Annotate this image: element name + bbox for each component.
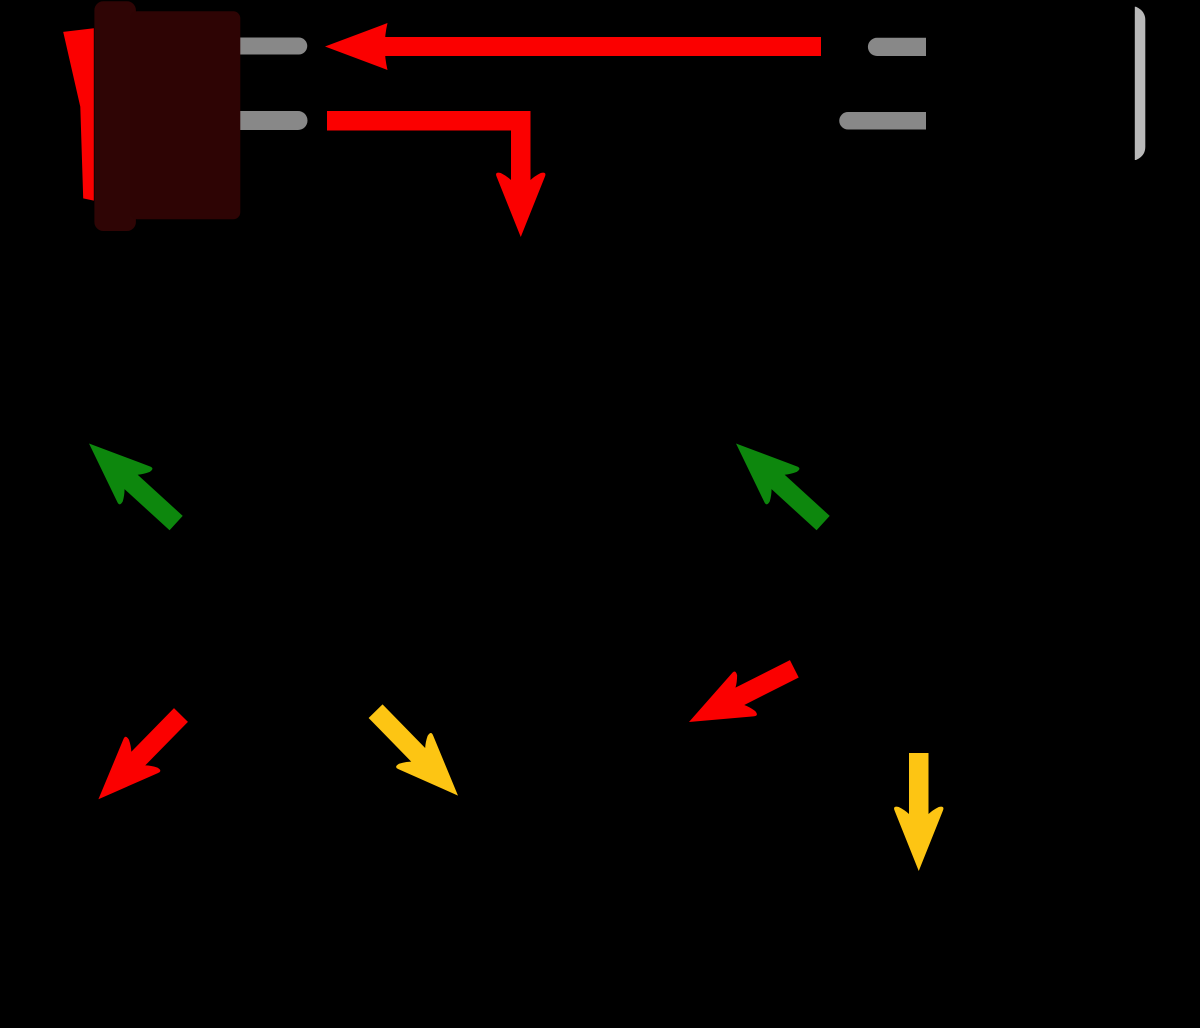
callout arrow yellow Y1 (down-right, bottom-middle) <box>358 694 476 813</box>
callout arrow green G2 (up-left, right area) <box>719 425 839 541</box>
wire arrow W1: shaft (red, horizontal, to pin1) <box>384 37 821 56</box>
pin 3 of S2 (floating, left-rounded) <box>868 38 926 56</box>
callout arrow green G1 (up-left, lower-left area) <box>72 425 192 541</box>
wire arrow W2: elbow wire (red, horizontal from pin2 then down) <box>327 111 531 131</box>
rocker switch S1 body <box>130 11 240 219</box>
rocker switch S2 lever highlight (gray bar, far right) <box>1135 7 1146 160</box>
pin 1 of S1 <box>239 38 307 55</box>
pin 4 of S2 (floating, left-rounded) <box>839 112 926 130</box>
rocker switch S1 flange <box>94 1 135 231</box>
wire arrow W1: head (left-pointing triangle) <box>325 23 388 70</box>
wire arrow W2: fancy down head at (520.75,237) <box>496 119 545 237</box>
pin 2 of S1 <box>239 111 308 130</box>
callout arrow red R3 (down-left shallow, middle-right) <box>678 647 806 744</box>
rocker switch S1 lever (red) <box>63 28 94 200</box>
callout arrow yellow Y2 (straight down, bottom-right) <box>894 753 943 871</box>
callout arrow red R2 (down-left, bottom-left) <box>81 698 199 817</box>
